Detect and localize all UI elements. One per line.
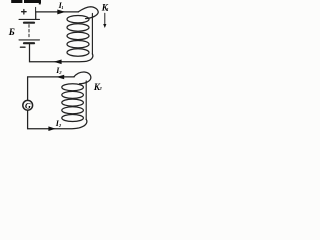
svg-text:1: 1 [61,5,63,10]
svg-text:2: 2 [98,86,102,91]
svg-text:2: 2 [58,123,62,128]
svg-text:G: G [25,101,31,110]
svg-text:Б: Б [8,28,15,38]
svg-text:1: 1 [106,7,108,12]
svg-text:2: 2 [58,70,62,75]
